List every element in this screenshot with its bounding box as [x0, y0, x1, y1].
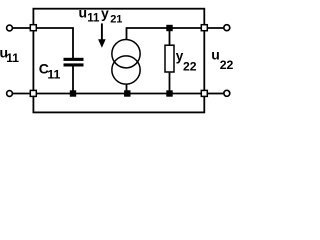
svg-text:11: 11: [47, 68, 60, 82]
svg-text:u: u: [79, 5, 88, 21]
svg-text:11: 11: [87, 13, 100, 25]
svg-text:11: 11: [6, 51, 19, 65]
svg-text:u: u: [211, 47, 220, 63]
svg-text:22: 22: [220, 58, 234, 72]
svg-text:y: y: [101, 5, 109, 21]
svg-text:21: 21: [110, 13, 122, 25]
svg-text:22: 22: [183, 60, 197, 74]
